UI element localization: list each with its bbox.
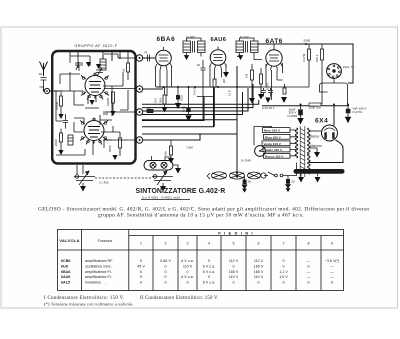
- ground VaF: [345, 117, 351, 124]
- bus y120.5: [142, 97, 204, 121]
- svg-text:2 x 465: 2 x 465: [99, 181, 109, 185]
- svg-text:0: 0: [331, 280, 333, 284]
- svg-text:.01: .01: [196, 63, 201, 67]
- svg-text:6 V c.a.: 6 V c.a.: [181, 275, 194, 279]
- IF transformer Z2: [236, 38, 258, 59]
- tap wires and labels: [262, 128, 297, 159]
- tube V5 6AT6: [266, 44, 283, 70]
- svg-text:0: 0: [164, 270, 166, 274]
- svg-text:(*) Tensione misurata con volt: (*) Tensione misurata con voltmetro a va…: [44, 301, 133, 306]
- HT bus y105.8: [262, 105, 349, 107]
- antenna coupling cap: [41, 78, 47, 89]
- ground C21: [285, 184, 291, 189]
- cap C4: [103, 112, 108, 114]
- svg-text:3: 3: [187, 242, 189, 246]
- svg-text:N.267: N.267: [187, 36, 196, 40]
- ground R15: [168, 158, 174, 164]
- svg-text:5: 5: [233, 242, 235, 246]
- svg-text:0.47M: 0.47M: [302, 53, 306, 62]
- svg-text:Verde 140 V: Verde 140 V: [264, 142, 282, 146]
- svg-text:6 V c.a.: 6 V c.a.: [203, 270, 216, 274]
- svg-text:VALVOLA: VALVOLA: [59, 238, 80, 243]
- resistor R5: [112, 92, 115, 111]
- svg-text:9: 9: [331, 242, 333, 246]
- svg-text:Giallo 125 V: Giallo 125 V: [265, 148, 283, 152]
- svg-text:—: —: [307, 259, 311, 263]
- resistor 1500/1w inline: [309, 103, 321, 106]
- svg-text:0,25 25 T: 0,25 25 T: [262, 106, 275, 110]
- heater winding bar: [294, 169, 345, 174]
- resistor R12: [251, 64, 254, 98]
- junction dots on bus: [163, 86, 165, 88]
- svg-text:1: 1: [140, 242, 142, 246]
- wire long vertical x237: [236, 66, 238, 178]
- svg-text:112 V: 112 V: [254, 259, 264, 263]
- svg-text:2: 2: [165, 242, 167, 246]
- svg-text:Rosso 110 V: Rosso 110 V: [265, 154, 284, 158]
- primary winding: [295, 128, 298, 158]
- svg-text:0: 0: [208, 275, 210, 279]
- trimmer arrows above tube1: [86, 62, 91, 67]
- svg-text:AE: AE: [39, 72, 43, 76]
- svg-text:0: 0: [164, 275, 166, 279]
- terminal T3: [136, 109, 142, 115]
- svg-text:GRUPPO AF 2622-F: GRUPPO AF 2622-F: [75, 44, 118, 48]
- bus y107.6: [142, 84, 253, 108]
- junction cap C5000: [305, 43, 307, 45]
- resistor R15 52k: [170, 140, 173, 158]
- svg-text:6BA6: 6BA6: [157, 36, 176, 43]
- svg-text:amplificatrice FI.: amplificatrice FI.: [85, 275, 112, 279]
- selector feed frame: [254, 127, 272, 146]
- line bypass cap C21: [287, 176, 289, 180]
- transformer tap selector: [255, 146, 266, 157]
- ground R13: [258, 94, 264, 100]
- svg-text:14 V.35: 14 V.35: [192, 86, 196, 96]
- svg-text:0: 0: [282, 265, 284, 269]
- ground heater 1: [300, 174, 302, 177]
- resistor R2: [127, 63, 130, 80]
- svg-text:N.7049: N.7049: [241, 159, 251, 163]
- svg-text:0: 0: [186, 270, 188, 274]
- svg-text:8: 8: [308, 242, 310, 246]
- svg-text:II Condensatore Elettrolitico:: II Condensatore Elettrolitico: 150 V.: [140, 296, 219, 301]
- svg-text:6X4: 6X4: [315, 118, 328, 125]
- ground 16uF: [297, 118, 303, 125]
- svg-text:6 V c.a.: 6 V c.a.: [203, 280, 216, 284]
- svg-text:amplificatrice RF: amplificatrice RF: [85, 259, 113, 263]
- ground C20: [242, 185, 248, 190]
- ground R7: [162, 107, 168, 113]
- svg-text:rivelatrice . . .: rivelatrice . . .: [85, 280, 107, 284]
- svg-text:B 8 Giallo 6,3 V 1,5 A: B 8 Giallo 6,3 V 1,5 A: [296, 170, 326, 174]
- ground R12: [249, 98, 255, 104]
- socket diagram (view from below): [327, 64, 342, 79]
- cap C9 0.05: [188, 87, 190, 108]
- svg-text:Bianco: Bianco: [310, 134, 320, 138]
- svg-text:6AU6: 6AU6: [61, 275, 70, 279]
- terminal T4: [136, 137, 142, 143]
- svg-text:12 K: 12 K: [228, 90, 232, 96]
- svg-text:oscillatrice misc.: oscillatrice misc.: [85, 265, 112, 269]
- svg-text:7: 7: [283, 242, 285, 246]
- table body: [61, 259, 113, 284]
- svg-text:6 V c.a.: 6 V c.a.: [203, 265, 216, 269]
- svg-text:1M: 1M: [245, 73, 249, 78]
- svg-text:50: 50: [248, 180, 252, 184]
- pin drops 6AU6: [210, 65, 226, 88]
- IF transformer Z1: [183, 38, 205, 59]
- svg-text:—: —: [330, 270, 334, 274]
- svg-text:165 V: 165 V: [254, 265, 264, 269]
- svg-text:Blau 160 V: Blau 160 V: [265, 135, 282, 139]
- svg-text:0: 0: [257, 280, 259, 284]
- wire 6X4 loop: [309, 140, 343, 163]
- resistor R7: [163, 87, 166, 107]
- svg-text:—: —: [307, 275, 311, 279]
- antenna: [40, 62, 48, 77]
- svg-text:0,65 V: 0,65 V: [160, 259, 171, 263]
- svg-text:0: 0: [232, 280, 234, 284]
- ground R8: [175, 103, 181, 109]
- svg-text:6: 6: [258, 242, 260, 246]
- cap C10 .01: [201, 60, 206, 121]
- bus y119.7: [142, 119, 237, 121]
- stub from Z2: [237, 57, 262, 60]
- top wire y44: [258, 44, 353, 83]
- svg-text:SINTONIZZATORE G.402·R: SINTONIZZATORE G.402·R: [136, 188, 226, 195]
- wire antenna to terminal: [44, 89, 45, 92]
- electrolytic 16uF: [300, 105, 302, 110]
- svg-text:0: 0: [140, 280, 142, 284]
- ground C9: [185, 115, 191, 121]
- svg-text:294: 294: [159, 98, 163, 103]
- gang capacitor CV1: [74, 171, 95, 185]
- svg-text:6 V c.a.: 6 V c.a.: [181, 259, 194, 263]
- svg-text:—: —: [307, 270, 311, 274]
- svg-text:2M: 2M: [222, 78, 226, 83]
- svg-text:Funzione: Funzione: [98, 239, 113, 243]
- svg-text:47: 47: [144, 51, 148, 55]
- ground heater 2: [317, 174, 319, 177]
- notes: [44, 296, 219, 306]
- terminal T1: [136, 55, 142, 61]
- bus y126.7: [142, 87, 214, 127]
- svg-text:Pied. 7a: Pied. 7a: [343, 65, 354, 69]
- svg-text:0: 0: [140, 270, 142, 274]
- svg-text:gruppo AF. Sensibilità d’anten: gruppo AF. Sensibilità d’antenna da 10 a…: [98, 213, 304, 219]
- pin drops 6BA6: [156, 67, 172, 97]
- lamp housing: [144, 161, 173, 171]
- bus y111: [143, 88, 248, 111]
- svg-text:6BA6: 6BA6: [61, 270, 70, 274]
- svg-text:N.4731: N.4731: [353, 110, 363, 114]
- svg-text:0: 0: [282, 259, 284, 263]
- resistor R11: [213, 79, 216, 127]
- svg-text:100 k: 100 k: [315, 54, 319, 62]
- svg-text:0.05: 0.05: [180, 95, 184, 101]
- svg-text:(L e G 402/L · G 402/C vedi): (L e G 402/L · G 402/C vedi): [142, 196, 180, 200]
- tiny value labels in box: [54, 68, 126, 152]
- resistor R14 on T3 wire: [147, 109, 153, 112]
- svg-text:4: 4: [208, 242, 210, 246]
- svg-text:110 V: 110 V: [183, 265, 193, 269]
- svg-text:0: 0: [307, 280, 309, 284]
- svg-text:P I E D I N I: P I E D I N I: [218, 231, 254, 235]
- cap C3: [63, 114, 68, 129]
- svg-text:0: 0: [140, 259, 142, 263]
- bus y114.5: [142, 92, 243, 115]
- svg-text:600: 600: [40, 85, 45, 89]
- svg-text:2000: 2000: [54, 139, 58, 146]
- svg-text:1,0 V: 1,0 V: [279, 275, 288, 279]
- svg-text:50: 50: [292, 180, 296, 184]
- svg-text:—: —: [330, 275, 334, 279]
- svg-text:I Condensatore Elettrolitico:: I Condensatore Elettrolitico: 150 V.: [44, 296, 124, 301]
- svg-text:10000: 10000: [55, 101, 59, 110]
- trimmer arrows row (top): [70, 51, 128, 63]
- drive cord assembly: [207, 172, 266, 179]
- socket loop wire: [320, 78, 348, 104]
- tube V2 6U8 (inside box, bottom): [80, 118, 108, 145]
- tube V4 6AU6: [210, 47, 227, 70]
- svg-text:26: 26: [122, 68, 126, 72]
- resistor R17 100k: [321, 44, 324, 105]
- secondary lead Bianco: [309, 130, 322, 132]
- gang capacitor CV2: [152, 171, 173, 185]
- wire T2 right: [143, 88, 163, 90]
- coil L2: [100, 59, 106, 70]
- svg-text:amplificatrice FI.: amplificatrice FI.: [85, 270, 112, 274]
- svg-text:0: 0: [186, 280, 188, 284]
- svg-text:104: 104: [154, 98, 158, 103]
- resistor R13: [260, 68, 263, 94]
- wire box to gang 1: [77, 165, 83, 174]
- tube V1 6CB6 (inside box, top): [81, 73, 109, 100]
- pin drops 6AT6: [266, 63, 283, 100]
- resistor R16 0.47M: [262, 44, 311, 87]
- svg-text:0: 0: [140, 275, 142, 279]
- svg-text:10000: 10000: [106, 97, 110, 106]
- wire y96.5: [197, 96, 215, 98]
- svg-text:6U8: 6U8: [61, 265, 68, 269]
- wire 6X4 plate: [333, 105, 335, 126]
- svg-text:112 V: 112 V: [229, 259, 239, 263]
- svg-text:0: 0: [208, 259, 210, 263]
- svg-text:5000: 5000: [304, 39, 311, 43]
- B+ bus: [156, 86, 262, 88]
- caps 0,25 x2 above bus: [261, 88, 273, 97]
- resistor R6 3000: [119, 138, 122, 156]
- junction dots on HT bus: [300, 104, 302, 106]
- svg-text:0: 0: [282, 280, 284, 284]
- tube V3 6BA6: [155, 47, 172, 70]
- svg-text:—: —: [330, 265, 334, 269]
- resistor R3 10000: [60, 92, 63, 114]
- svg-text:100 K: 100 K: [266, 83, 270, 90]
- paragraph: [38, 206, 369, 219]
- svg-text:165 V: 165 V: [229, 270, 239, 274]
- wire T4: [143, 134, 200, 140]
- trimmer cap C1: [75, 62, 83, 71]
- svg-text:1,1 V: 1,1 V: [279, 270, 288, 274]
- svg-text:N.272: N.272: [240, 36, 249, 40]
- cap VaF (electrolytic): [347, 105, 349, 109]
- svg-text:7,5M: 7,5M: [186, 146, 193, 150]
- secondary lead Marrone: [309, 148, 317, 152]
- lamp supply stubs: [152, 156, 172, 161]
- ground gang1: [82, 183, 84, 186]
- wire terminal T1 to 6BA6: [143, 57, 155, 59]
- svg-text:N.2952: N.2952: [288, 114, 298, 118]
- resistor small above bus: [283, 84, 286, 94]
- gang link dashed: [95, 177, 152, 179]
- svg-text:110 V: 110 V: [229, 275, 239, 279]
- svg-text:0: 0: [164, 280, 166, 284]
- AC switch: [264, 163, 297, 177]
- svg-text:0: 0: [307, 265, 309, 269]
- svg-text:0: 0: [164, 265, 166, 269]
- interior wires: [56, 55, 128, 155]
- svg-text:GELOSO - Sintonizzatori modd.: GELOSO - Sintonizzatori modd. G. 402/R, …: [38, 206, 369, 213]
- secondary winding: [308, 128, 311, 174]
- svg-text:45 V: 45 V: [137, 265, 145, 269]
- svg-text:5000: 5000: [108, 145, 112, 152]
- trimmer cap C2: [96, 68, 103, 76]
- svg-text:110 V: 110 V: [254, 275, 264, 279]
- line bypass cap C20: [244, 176, 246, 179]
- svg-text:0: 0: [232, 265, 234, 269]
- transformer T-PWR: [300, 126, 305, 177]
- ground 6AU6 pin: [223, 72, 229, 78]
- coil L3: [68, 135, 73, 145]
- ground lamp: [173, 165, 178, 168]
- resistor R8 0.05: [177, 87, 179, 103]
- bus y134: [142, 133, 237, 135]
- ground gang2: [162, 183, 164, 186]
- bus y104.3: [142, 100, 259, 104]
- svg-text:165 V: 165 V: [254, 270, 264, 274]
- coupling cap C47: [148, 55, 150, 62]
- tube V6 6X4: [322, 125, 338, 141]
- wires to terminals inside box: [103, 54, 136, 140]
- antenna terminal ring: [44, 88, 49, 93]
- svg-text:6AL5: 6AL5: [61, 280, 70, 284]
- ground Marrone: [314, 152, 320, 158]
- svg-text:6AU6: 6AU6: [211, 37, 227, 43]
- junction dots on cord: [236, 172, 238, 174]
- ground arrows onto bus: [265, 98, 271, 104]
- svg-text:6CB6: 6CB6: [61, 259, 70, 263]
- svg-text:−3,5 V(*): −3,5 V(*): [325, 259, 340, 263]
- svg-text:1500 /1w: 1500 /1w: [309, 106, 322, 110]
- svg-text:10: 10: [147, 106, 151, 110]
- svg-text:Nero 220 V: Nero 220 V: [264, 129, 281, 133]
- svg-text:Marrone: Marrone: [310, 144, 322, 148]
- terminal T2: [136, 86, 142, 92]
- ground arrows inside box: [58, 100, 117, 160]
- wire terminal into box: [50, 90, 63, 92]
- svg-text:52k: 52k: [164, 151, 168, 156]
- resistor R4 2000: [60, 129, 63, 151]
- shield box GRUPPO AF: [52, 51, 135, 164]
